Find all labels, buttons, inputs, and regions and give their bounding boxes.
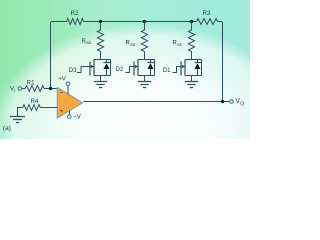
resistor R3 — [197, 10, 218, 25]
wire R1 to summing node — [44, 88, 57, 90]
svg-text:a1: a1 — [177, 42, 182, 47]
svg-text:R4: R4 — [30, 98, 38, 105]
node summing junction — [49, 87, 52, 90]
svg-text:(a): (a) — [3, 125, 11, 132]
node output junction — [221, 100, 224, 103]
svg-text:O: O — [240, 101, 244, 107]
diode body D1 — [195, 60, 202, 76]
svg-text:D2: D2 — [116, 67, 124, 73]
resistor Ra3 — [82, 22, 104, 60]
wire Vi to R1 — [22, 88, 26, 90]
svg-text:D3: D3 — [69, 68, 77, 74]
terminal Vi — [10, 86, 22, 93]
resistor Ra2 — [126, 22, 148, 60]
node branch D1 top junction — [190, 20, 193, 23]
wire output net — [84, 101, 230, 103]
svg-text:a2: a2 — [130, 42, 135, 47]
ground (source of switch 2) — [138, 76, 151, 88]
svg-text:+V: +V — [58, 76, 66, 82]
gate drive node D3 — [69, 67, 94, 74]
diode body D2 — [148, 60, 155, 76]
svg-text:R1: R1 — [27, 79, 35, 86]
diode body D3 — [104, 60, 111, 76]
svg-text:R3: R3 — [203, 10, 211, 17]
svg-text:D1: D1 — [163, 68, 171, 74]
svg-text:i: i — [14, 88, 15, 93]
resistor Ra1 — [173, 22, 195, 60]
op-amp -V supply terminal — [68, 111, 82, 121]
transistor MOSFET switch 2 — [134, 60, 155, 76]
node branch D2 top junction — [143, 20, 146, 23]
op-amp +V supply terminal — [58, 76, 69, 94]
wire R3 to output node (right vertical) — [218, 22, 223, 102]
resistor R4 — [18, 98, 58, 116]
svg-text:−V: −V — [73, 113, 82, 120]
svg-text:R2: R2 — [71, 10, 79, 17]
gate drive node D2 — [116, 67, 138, 74]
ground (R4) — [10, 117, 25, 123]
resistor R2 — [67, 10, 84, 24]
wire top net R2 to R3 — [84, 21, 197, 23]
wire feedback vertical and top-left corner — [51, 22, 67, 89]
transistor MOSFET switch 3 — [90, 60, 111, 76]
op-amp U1 — [57, 88, 82, 119]
terminal Vo — [230, 98, 245, 108]
svg-text:a3: a3 — [86, 40, 91, 45]
resistor R1 — [25, 79, 44, 91]
node branch D3 top junction — [99, 20, 102, 23]
ground (source of switch 1) — [185, 76, 198, 88]
ground (source of switch 3) — [94, 76, 107, 88]
transistor MOSFET switch 1 — [181, 60, 202, 76]
gate drive node D1 — [163, 67, 185, 75]
